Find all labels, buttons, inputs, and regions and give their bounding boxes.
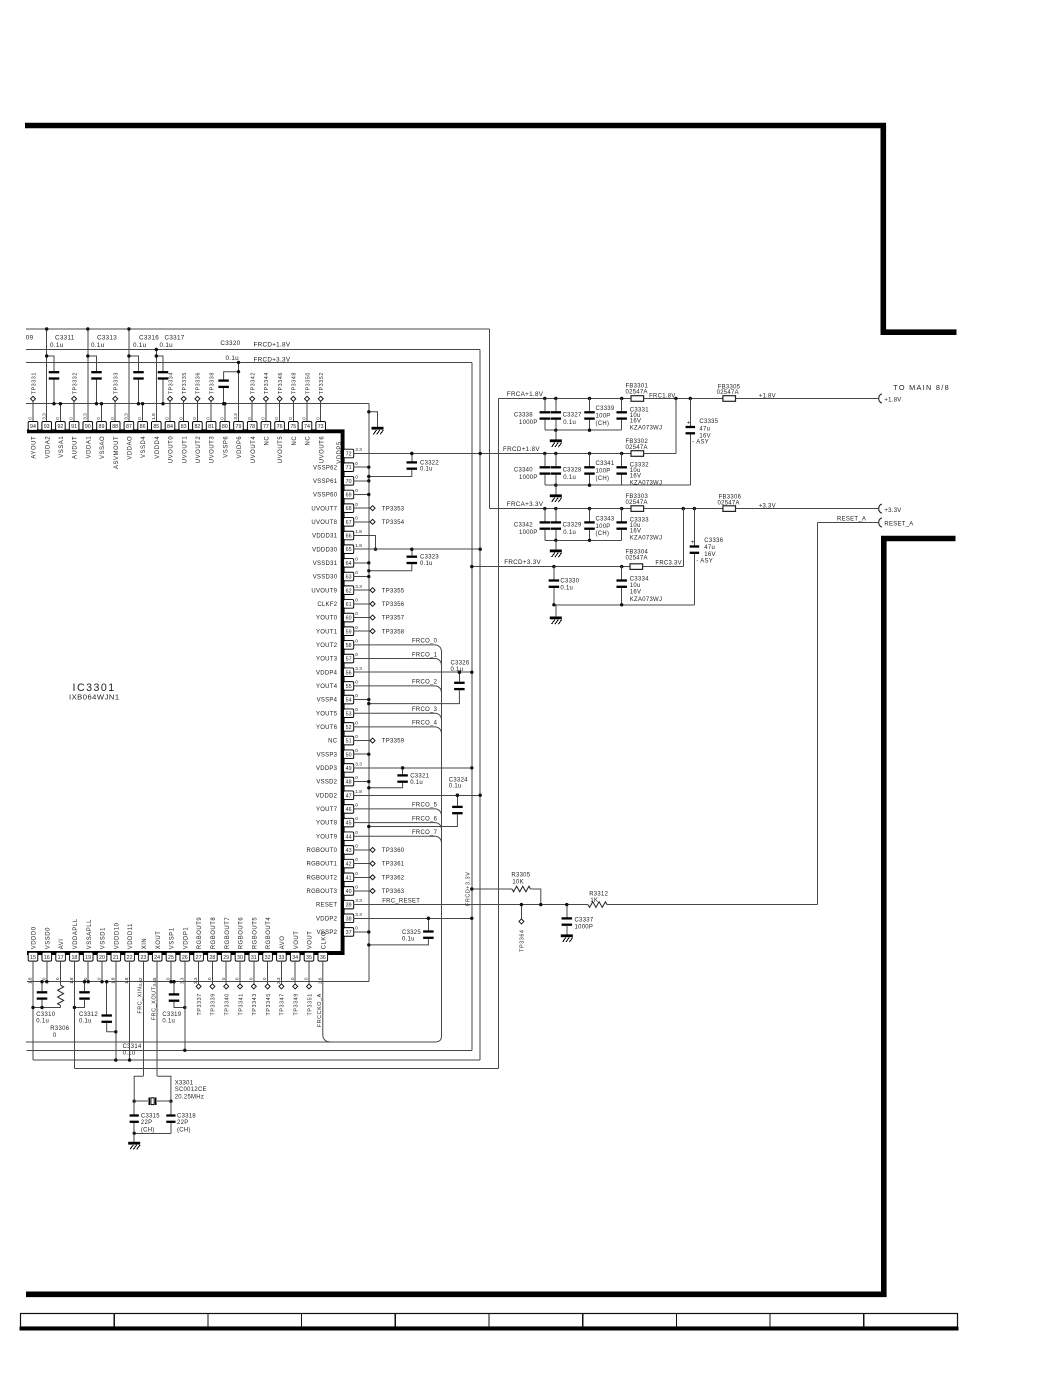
svg-text:0: 0 [137,417,142,420]
svg-text:FRCO_3: FRCO_3 [412,707,438,713]
svg-text:VDDP6: VDDP6 [237,436,243,459]
svg-text:0.1u: 0.1u [449,784,462,790]
svg-text:TP3340: TP3340 [225,993,231,1015]
svg-text:74: 74 [304,424,310,430]
svg-text:0: 0 [355,693,358,698]
svg-text:FRC_XIN: FRC_XIN [138,987,144,1014]
svg-text:22: 22 [127,955,133,961]
svg-text:VSSD31: VSSD31 [313,561,338,567]
svg-text:3.3: 3.3 [355,762,362,767]
svg-text:1000P: 1000P [519,420,538,426]
svg-text:0.1u: 0.1u [563,530,576,536]
svg-text:C3319: C3319 [162,1012,181,1018]
svg-text:0: 0 [355,748,358,753]
svg-text:NC: NC [292,436,298,446]
svg-text:TP3362: TP3362 [382,875,405,881]
svg-text:3.3: 3.3 [41,413,46,420]
svg-text:16V: 16V [704,552,715,558]
svg-text:0.1u: 0.1u [420,561,433,567]
svg-text:24: 24 [154,955,160,961]
svg-text:UVOUT7: UVOUT7 [311,506,337,512]
svg-text:VSSP1: VSSP1 [170,927,176,949]
svg-text:C3343: C3343 [596,516,615,522]
svg-text:+: + [687,420,691,427]
svg-text:FRCA+1.8V: FRCA+1.8V [507,391,544,398]
svg-text:53: 53 [346,711,352,717]
svg-text:RGBOUT1: RGBOUT1 [306,862,337,868]
svg-text:0: 0 [315,417,320,420]
svg-text:1000P: 1000P [575,925,594,931]
svg-text:90: 90 [85,424,91,430]
svg-text:SC0012CE: SC0012CE [175,1087,207,1093]
svg-text:FRCD+3.3V: FRCD+3.3V [504,559,541,566]
svg-text:34: 34 [292,955,298,961]
svg-text:FRC_XOUT: FRC_XOUT [151,986,157,1020]
svg-text:TP3346: TP3346 [278,372,284,394]
svg-text:09: 09 [26,334,34,341]
svg-text:RESET_A: RESET_A [837,516,866,522]
svg-text:RGBOUT3: RGBOUT3 [306,889,337,895]
svg-text:+1.8V: +1.8V [759,393,776,399]
svg-text:FRCO_2: FRCO_2 [412,680,437,686]
svg-text:0.1u: 0.1u [91,342,105,349]
svg-text:55: 55 [346,684,352,690]
svg-text:TP3336: TP3336 [196,372,202,394]
svg-text:3.3: 3.3 [355,912,362,917]
svg-text:VSSD4: VSSD4 [141,436,147,458]
svg-text:C3337: C3337 [575,917,594,923]
svg-text:0: 0 [355,611,358,616]
svg-text:37: 37 [346,930,352,936]
svg-text:76: 76 [277,424,283,430]
svg-text:VDDD0: VDDD0 [32,926,38,949]
svg-text:58: 58 [346,643,352,649]
svg-text:(CH): (CH) [177,1127,191,1133]
svg-text:FRCD+1.8V: FRCD+1.8V [503,446,540,453]
svg-text:C3342: C3342 [514,523,533,529]
svg-text:UVOUT4: UVOUT4 [251,436,257,464]
svg-text:16V: 16V [630,529,641,535]
svg-text:VDDD11: VDDD11 [128,923,134,949]
svg-text:VDDD30: VDDD30 [312,547,338,553]
svg-text:41: 41 [346,875,352,881]
svg-text:84: 84 [167,424,173,430]
svg-text:0.1u: 0.1u [79,1019,92,1025]
svg-text:3.3: 3.3 [355,898,362,903]
svg-text:TP3358: TP3358 [382,629,405,635]
svg-text:NC: NC [328,739,338,745]
svg-text:0.1u: 0.1u [160,342,174,349]
svg-text:1.8: 1.8 [151,413,156,420]
svg-text:2.6: 2.6 [317,977,322,984]
svg-text:75: 75 [290,424,296,430]
svg-text:0: 0 [235,977,240,980]
svg-text:YOUT1: YOUT1 [316,629,338,635]
svg-text:39: 39 [346,903,352,909]
svg-text:83: 83 [181,424,187,430]
svg-text:C3320: C3320 [220,340,240,347]
svg-text:TP3350: TP3350 [305,372,311,394]
svg-text:1.8: 1.8 [355,543,362,548]
svg-text:AUDUT: AUDUT [73,436,79,459]
svg-text:TP3357: TP3357 [382,616,405,622]
svg-text:20.25MHz: 20.25MHz [175,1095,204,1101]
svg-text:KZA073WJ: KZA073WJ [630,536,662,542]
svg-text:ASVMOUT: ASVMOUT [114,436,120,469]
svg-text:0: 0 [221,977,226,980]
svg-text:VDDD2: VDDD2 [316,793,338,799]
svg-text:0.1u: 0.1u [420,467,433,473]
svg-text:FRCO_7: FRCO_7 [412,830,437,836]
svg-text:78: 78 [249,424,255,430]
svg-text:82: 82 [194,424,200,430]
svg-text:43: 43 [346,848,352,854]
svg-text:52: 52 [346,725,352,731]
svg-text:54: 54 [346,698,352,704]
svg-text:(CH): (CH) [596,476,610,482]
svg-text:RGBOUT2: RGBOUT2 [306,875,337,881]
svg-text:1.8: 1.8 [69,977,74,984]
svg-text:88: 88 [112,424,118,430]
svg-text:64: 64 [346,561,352,567]
svg-text:65: 65 [346,547,352,553]
svg-text:C3315: C3315 [141,1113,160,1119]
svg-text:50: 50 [346,752,352,758]
svg-text:VSSD2: VSSD2 [316,780,337,786]
svg-text:66: 66 [346,534,352,540]
svg-text:0: 0 [355,816,358,821]
svg-text:C3317: C3317 [165,334,185,341]
svg-text:48: 48 [346,780,352,786]
svg-text:TP3333: TP3333 [114,372,120,394]
svg-text:FRC_RESET: FRC_RESET [382,898,420,904]
svg-text:25: 25 [168,955,174,961]
svg-text:1.8: 1.8 [124,977,129,984]
svg-text:FRCO_5: FRCO_5 [412,803,438,809]
svg-text:28: 28 [209,955,215,961]
svg-text:VDDP3: VDDP3 [316,766,338,772]
svg-text:0.1u: 0.1u [451,667,464,673]
svg-text:0: 0 [302,417,307,420]
svg-text:87: 87 [126,424,132,430]
svg-text:0: 0 [206,417,211,420]
svg-text:89: 89 [99,424,105,430]
svg-text:KZA073WJ: KZA073WJ [630,597,662,603]
svg-text:0: 0 [355,474,358,479]
svg-text:C3339: C3339 [596,406,615,412]
svg-text:0: 0 [248,977,253,980]
svg-text:C3324: C3324 [449,777,468,783]
svg-text:59: 59 [346,629,352,635]
svg-text:0: 0 [96,417,101,420]
svg-text:0: 0 [55,417,60,420]
svg-text:63: 63 [346,575,352,581]
svg-text:80: 80 [222,424,228,430]
svg-text:(CH): (CH) [596,421,610,427]
svg-text:CLKF2: CLKF2 [317,602,337,608]
svg-text:44: 44 [346,834,352,840]
svg-text:TP3335: TP3335 [182,372,188,394]
svg-text:C3318: C3318 [177,1113,196,1119]
svg-text:TP3345: TP3345 [266,993,272,1015]
svg-text:C3334: C3334 [630,576,649,582]
svg-text:VSSAPLL: VSSAPLL [87,919,93,949]
svg-text:16V: 16V [630,419,641,425]
svg-text:0: 0 [166,977,171,980]
svg-text:TP3363: TP3363 [382,889,405,895]
svg-text:0.1u: 0.1u [402,937,415,943]
svg-text:VSSA1: VSSA1 [59,436,65,458]
svg-text:0: 0 [97,977,102,980]
svg-text:3.3: 3.3 [193,977,198,984]
svg-text:29: 29 [223,955,229,961]
svg-text:VOUT: VOUT [294,931,300,950]
svg-text:C3313: C3313 [97,334,117,341]
svg-text:C3340: C3340 [514,468,533,474]
svg-text:0.1u: 0.1u [563,420,576,426]
svg-text:0.1u: 0.1u [133,342,147,349]
svg-text:3.45: 3.45 [152,977,157,987]
svg-text:YOUT5: YOUT5 [316,711,338,717]
svg-text:VSSD0: VSSD0 [45,927,51,949]
svg-text:VDDP1: VDDP1 [183,927,189,950]
svg-text:0: 0 [274,417,279,420]
svg-text:TP3364: TP3364 [520,930,526,952]
svg-text:0: 0 [288,417,293,420]
svg-text:VDDP5: VDDP5 [337,441,343,464]
svg-text:60: 60 [346,616,352,622]
svg-text:0: 0 [83,977,88,980]
svg-text:3.3: 3.3 [233,413,238,420]
svg-text:72: 72 [346,452,352,458]
svg-text:0: 0 [69,417,74,420]
svg-text:0: 0 [219,417,224,420]
svg-text:R3312: R3312 [589,891,608,897]
svg-text:CLKO: CLKO [321,931,327,949]
svg-text:40: 40 [346,889,352,895]
svg-text:51: 51 [346,739,352,745]
svg-text:0: 0 [355,638,358,643]
svg-text:0: 0 [355,625,358,630]
svg-text:TP3361: TP3361 [382,862,405,868]
svg-text:31: 31 [251,955,257,961]
svg-text:TP3342: TP3342 [251,372,257,394]
svg-text:FRCO_0: FRCO_0 [412,639,438,645]
svg-text:0.1u: 0.1u [226,355,240,362]
svg-text:0: 0 [28,417,33,420]
svg-text:47: 47 [346,793,352,799]
svg-text:UVOUT1: UVOUT1 [182,436,188,464]
svg-text:0: 0 [355,502,358,507]
svg-text:27: 27 [196,955,202,961]
svg-text:RGBOUT8: RGBOUT8 [211,917,217,950]
svg-text:FRCO_1: FRCO_1 [412,652,438,658]
svg-text:0: 0 [261,417,266,420]
svg-text:33: 33 [278,955,284,961]
svg-text:0: 0 [192,417,197,420]
svg-text:VSSAO: VSSAO [100,436,106,459]
svg-text:0: 0 [41,977,46,980]
svg-text:C3314: C3314 [123,1044,142,1050]
svg-text:0: 0 [110,417,115,420]
svg-text:R3306: R3306 [50,1026,69,1032]
svg-text:0: 0 [355,488,358,493]
svg-text:70: 70 [346,479,352,485]
svg-text:02547A: 02547A [626,556,648,562]
svg-text:62: 62 [346,588,352,594]
svg-text:YOUT2: YOUT2 [316,643,337,649]
svg-text:46: 46 [346,807,352,813]
svg-text:UVOUT8: UVOUT8 [311,520,337,526]
svg-text:AYOUT: AYOUT [32,436,38,459]
svg-text:RGBOUT5: RGBOUT5 [252,917,258,950]
svg-text:16: 16 [44,955,50,961]
svg-text:0: 0 [355,885,358,890]
svg-text:3.3: 3.3 [355,584,362,589]
svg-text:XIN: XIN [142,938,148,950]
svg-text:TP3360: TP3360 [382,848,405,854]
svg-text:R3305: R3305 [511,872,530,878]
svg-text:UVOUT3: UVOUT3 [210,436,216,464]
svg-text:0.1u: 0.1u [162,1019,175,1025]
svg-text:0: 0 [207,977,212,980]
svg-text:3.3: 3.3 [355,666,362,671]
svg-text:73: 73 [318,424,324,430]
svg-text:- ASY: - ASY [692,440,709,446]
svg-text:38: 38 [346,916,352,922]
svg-text:VDDD31: VDDD31 [312,534,338,540]
svg-text:AVO: AVO [280,936,286,950]
svg-text:1000P: 1000P [519,530,538,536]
svg-text:TP3343: TP3343 [252,993,258,1015]
svg-text:RGBOUT0: RGBOUT0 [306,848,337,854]
svg-text:0: 0 [355,926,358,931]
svg-text:02547A: 02547A [626,445,648,451]
svg-text:0: 0 [355,844,358,849]
svg-text:VDDA2: VDDA2 [45,436,51,459]
svg-text:YOUT8: YOUT8 [316,821,338,827]
svg-text:FRC3.3V: FRC3.3V [655,560,682,566]
svg-text:81: 81 [208,424,214,430]
svg-text:17: 17 [58,955,64,961]
svg-text:92: 92 [57,424,63,430]
svg-text:RESET_A: RESET_A [884,522,913,528]
svg-text:16V: 16V [630,474,641,480]
svg-text:C3327: C3327 [563,413,582,419]
svg-text:RGBOUT6: RGBOUT6 [239,917,245,950]
svg-text:FRCO_4: FRCO_4 [412,721,438,727]
svg-text:FRCA+3.3V: FRCA+3.3V [507,501,544,508]
svg-text:VDDP2: VDDP2 [316,916,337,922]
svg-text:C3311: C3311 [55,334,75,341]
svg-text:YOUT0: YOUT0 [316,616,338,622]
svg-text:RGBOUT7: RGBOUT7 [225,917,231,950]
svg-text:0: 0 [178,417,183,420]
svg-text:YOUT9: YOUT9 [316,834,338,840]
svg-text:23: 23 [140,955,146,961]
svg-text:TP3332: TP3332 [72,372,78,394]
svg-text:15: 15 [30,955,36,961]
svg-text:FRCO_6: FRCO_6 [412,816,438,822]
svg-text:0: 0 [355,652,358,657]
svg-text:3.3: 3.3 [82,413,87,420]
svg-text:(CH): (CH) [596,531,610,537]
svg-text:VSSD1: VSSD1 [101,927,107,949]
svg-text:TP3352: TP3352 [319,372,325,394]
svg-text:77: 77 [263,424,269,430]
svg-text:VDDD10: VDDD10 [114,922,120,949]
svg-text:FRCD+1.8V: FRCD+1.8V [254,342,291,349]
svg-text:18: 18 [71,955,77,961]
svg-text:0: 0 [304,977,309,980]
svg-text:02547A: 02547A [626,500,648,506]
svg-text:79: 79 [236,424,242,430]
svg-text:3.3: 3.3 [276,977,281,984]
svg-text:XOUT: XOUT [156,931,162,950]
svg-text:VSSP60: VSSP60 [313,493,338,499]
svg-text:36: 36 [320,955,326,961]
svg-text:35: 35 [306,955,312,961]
svg-text:0.1u: 0.1u [123,1050,136,1056]
svg-text:KZA073WJ: KZA073WJ [630,426,662,432]
svg-text:0: 0 [355,461,358,466]
svg-text:+1.8V: +1.8V [884,398,901,404]
svg-text:22P: 22P [141,1120,152,1126]
svg-text:3.3: 3.3 [179,977,184,984]
svg-text:VSSP6: VSSP6 [223,436,229,458]
svg-text:IXB064WJN1: IXB064WJN1 [69,693,120,702]
svg-text:67: 67 [346,520,352,526]
svg-text:0: 0 [355,597,358,602]
svg-text:0.1u: 0.1u [410,780,423,786]
svg-text:YOUT4: YOUT4 [316,684,338,690]
svg-text:86: 86 [140,424,146,430]
svg-text:10u: 10u [630,583,641,589]
svg-text:C3330: C3330 [560,579,579,585]
svg-text:22P: 22P [177,1120,188,1126]
svg-text:30: 30 [237,955,243,961]
svg-text:0: 0 [355,556,358,561]
svg-text:0: 0 [55,977,60,980]
svg-text:C3328: C3328 [563,468,582,474]
svg-text:C3325: C3325 [402,930,421,936]
svg-text:1.8: 1.8 [355,789,362,794]
svg-text:20: 20 [99,955,105,961]
svg-text:C3316: C3316 [139,334,159,341]
svg-text:49: 49 [346,766,352,772]
svg-text:C3336: C3336 [704,538,723,544]
svg-text:0: 0 [355,679,358,684]
svg-text:TP3359: TP3359 [382,739,405,745]
svg-text:FRCD+3.3V: FRCD+3.3V [254,357,291,364]
svg-text:VDDP4: VDDP4 [316,670,338,676]
svg-text:TP3339: TP3339 [211,993,217,1015]
svg-text:TP3337: TP3337 [197,993,203,1015]
svg-text:93: 93 [44,424,50,430]
svg-text:0.1u: 0.1u [560,586,573,592]
svg-text:C3323: C3323 [420,554,439,560]
svg-text:NC: NC [306,436,312,446]
svg-text:TP3353: TP3353 [382,506,405,512]
svg-text:TP3356: TP3356 [382,602,405,608]
svg-text:61: 61 [346,602,352,608]
svg-text:AVI: AVI [59,939,65,950]
svg-text:TP3349: TP3349 [294,993,300,1015]
svg-text:UVOUT9: UVOUT9 [311,588,337,594]
svg-text:- ASY: - ASY [696,558,713,564]
svg-text:100P: 100P [596,524,611,530]
svg-text:0: 0 [355,803,358,808]
